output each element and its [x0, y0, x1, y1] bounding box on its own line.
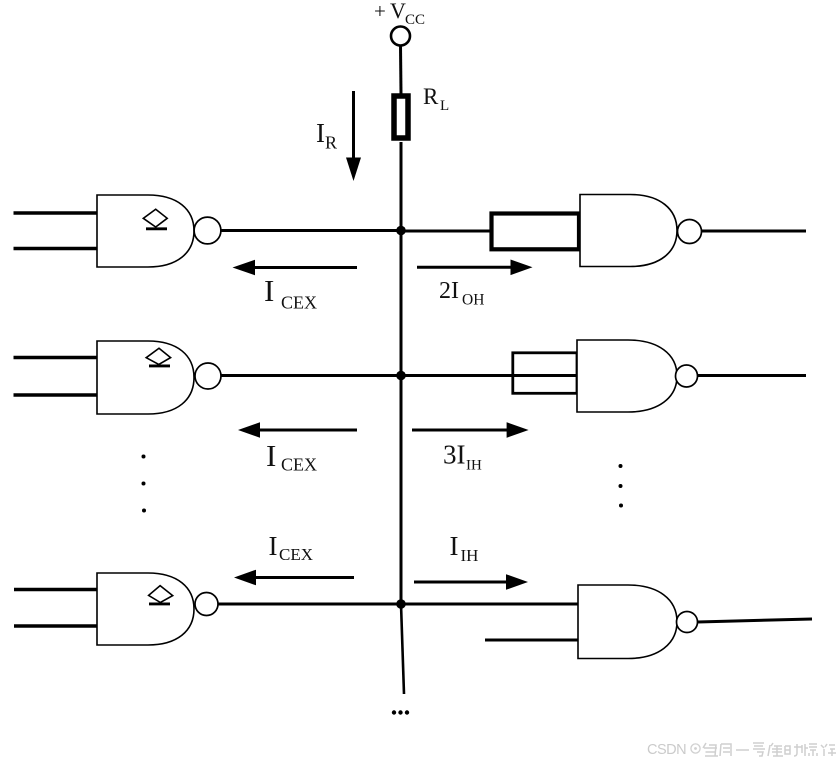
gate U6 NAND (row3 right) [578, 585, 698, 659]
input tie box row1 (2 inputs) [492, 214, 580, 250]
node B (row2 junction) [396, 371, 406, 381]
current arrow IR [346, 91, 361, 181]
node C (row3 junction) [396, 599, 406, 609]
svg-text:+: + [374, 0, 386, 23]
svg-text:I: I [450, 531, 459, 561]
power terminal Vcc [391, 27, 410, 46]
wire U1 input 2 [14, 247, 98, 250]
gate U2 NAND (row1 right) [580, 195, 702, 267]
wire U6 output [698, 619, 813, 622]
resistor RL [394, 96, 408, 138]
svg-text:IH: IH [461, 546, 479, 565]
label 3IIH [443, 440, 482, 474]
wire U5 input 2 [14, 624, 97, 627]
svg-text:IH: IH [466, 458, 482, 474]
gate U4 NAND (row2 right) [577, 340, 698, 412]
wire U5 output to node C [218, 603, 401, 606]
svg-text:3I: 3I [443, 440, 466, 470]
wire U3 input 1 [14, 356, 98, 359]
label IIH row3 [450, 531, 479, 565]
label ICEX row2 [266, 438, 317, 475]
wire U3 output to node B [221, 374, 401, 377]
input tie box row2 (3 inputs) [513, 353, 577, 394]
label ICEX row1 [264, 273, 317, 313]
svg-text:I: I [264, 273, 274, 308]
svg-text:CEX: CEX [279, 545, 313, 564]
svg-text:CSDN: CSDN [647, 742, 686, 758]
svg-text:V: V [390, 0, 406, 23]
current arrow ICEX row1 [233, 260, 358, 276]
gate U3 open-collector NAND (row2 left) [97, 341, 221, 414]
svg-text:R: R [423, 84, 439, 109]
label ICEX row3 [269, 531, 314, 564]
wire main bus [401, 142, 404, 694]
gate U5 open-collector NAND (row3 left) [97, 573, 218, 645]
current arrow IIH row3 [414, 574, 528, 590]
left ellipsis dots [142, 455, 147, 513]
svg-text:CEX: CEX [281, 293, 317, 313]
watermark chinese glyph strokes [703, 743, 836, 756]
svg-text:OH: OH [462, 292, 484, 309]
svg-text:CEX: CEX [281, 455, 317, 475]
node A (row1 junction) [396, 226, 406, 236]
svg-text:I: I [266, 438, 276, 473]
svg-text:I: I [269, 531, 278, 561]
wire U2 output [702, 230, 807, 233]
label RL [423, 84, 449, 114]
wire U5 input 1 [14, 588, 97, 591]
wire node B through tie box row2 [401, 374, 577, 377]
wire U1 input 1 [14, 211, 98, 214]
wire U6 input 2 stub [485, 639, 578, 642]
wire Vcc terminal to resistor [399, 46, 403, 95]
gate U1 open-collector NAND (row1 left) [97, 195, 221, 267]
wire U1 output to node A [220, 229, 401, 232]
watermark CSDN [647, 742, 700, 758]
svg-text:2I: 2I [439, 278, 459, 304]
bottom ellipsis [392, 710, 409, 714]
label +Vcc [374, 0, 425, 28]
current arrow ICEX row3 [234, 570, 354, 586]
label 2IOH [439, 278, 484, 309]
wire U3 input 2 [14, 393, 98, 396]
wire U4 output [698, 374, 807, 377]
current arrow 2IOH row1 [417, 260, 533, 276]
svg-text:R: R [325, 133, 337, 153]
right ellipsis dots [619, 464, 624, 508]
current arrow ICEX row2 [238, 422, 357, 438]
current arrow 3IIH row2 [412, 422, 529, 438]
svg-text:I: I [316, 118, 325, 148]
label IR [316, 118, 337, 153]
wire node C to gate U6 input [401, 603, 578, 606]
svg-text:CC: CC [405, 12, 425, 28]
svg-text:L: L [440, 98, 449, 114]
wire node A to input tie box row1 [401, 230, 492, 233]
